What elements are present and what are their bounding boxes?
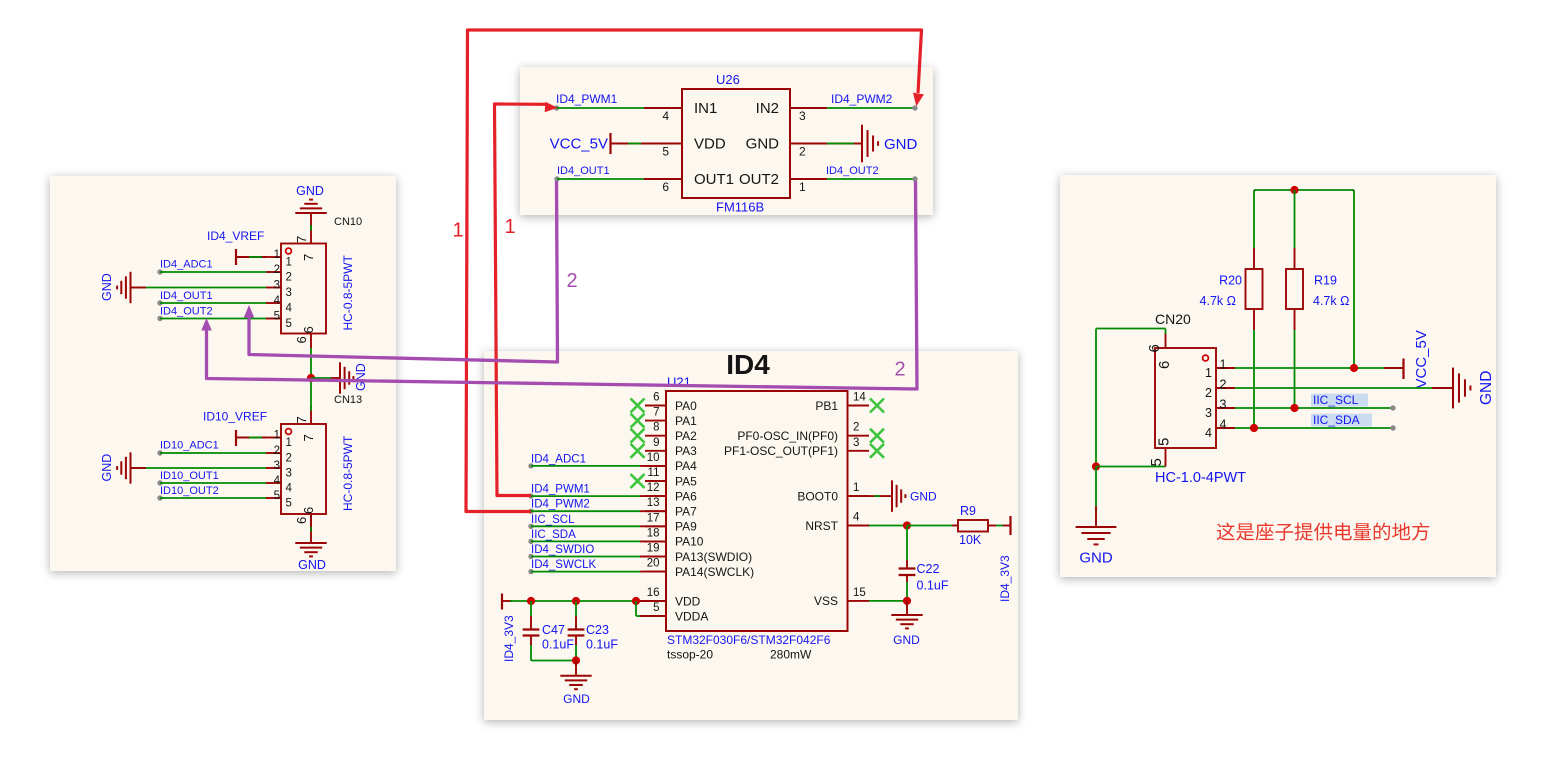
svg-text:PA9: PA9 — [675, 520, 697, 534]
svg-text:6: 6 — [294, 517, 309, 524]
svg-text:15: 15 — [853, 587, 866, 599]
svg-text:ID10_OUT1: ID10_OUT1 — [160, 470, 219, 482]
svg-text:R20: R20 — [1219, 274, 1242, 288]
svg-text:280mW: 280mW — [770, 648, 812, 662]
svg-text:R9: R9 — [960, 504, 976, 518]
svg-text:4: 4 — [662, 109, 669, 123]
svg-text:ID4_OUT2: ID4_OUT2 — [826, 165, 879, 177]
svg-text:4: 4 — [286, 483, 293, 495]
svg-text:5: 5 — [662, 145, 669, 159]
svg-text:5: 5 — [1148, 458, 1165, 466]
svg-text:PF0-OSC_IN(PF0): PF0-OSC_IN(PF0) — [737, 429, 838, 443]
svg-text:9: 9 — [653, 437, 659, 449]
svg-text:ID4_ADC1: ID4_ADC1 — [531, 453, 586, 465]
svg-text:VDD: VDD — [675, 594, 701, 608]
svg-text:STM32F030F6/STM32F042F6: STM32F030F6/STM32F042F6 — [667, 633, 831, 647]
svg-text:HC-0.8-5PWT: HC-0.8-5PWT — [341, 435, 355, 511]
svg-text:GND: GND — [100, 273, 114, 301]
svg-text:19: 19 — [647, 543, 660, 555]
svg-text:ID4_3V3: ID4_3V3 — [998, 555, 1012, 602]
svg-text:4.7k Ω: 4.7k Ω — [1200, 294, 1236, 308]
svg-text:PA1: PA1 — [675, 414, 697, 428]
svg-text:2: 2 — [566, 270, 577, 292]
svg-text:5: 5 — [274, 490, 280, 502]
svg-text:PF1-OSC_OUT(PF1): PF1-OSC_OUT(PF1) — [724, 444, 838, 458]
svg-text:GND: GND — [910, 490, 937, 504]
svg-text:1: 1 — [274, 249, 280, 261]
svg-text:PA6: PA6 — [675, 489, 697, 503]
svg-text:5: 5 — [274, 311, 280, 323]
svg-text:1: 1 — [853, 482, 859, 494]
svg-text:0.1uF: 0.1uF — [586, 638, 618, 652]
svg-text:3: 3 — [274, 460, 280, 472]
svg-text:HC-1.0-4PWT: HC-1.0-4PWT — [1155, 470, 1246, 486]
svg-text:1: 1 — [504, 216, 515, 238]
svg-text:VDD: VDD — [694, 136, 726, 153]
svg-text:GND: GND — [884, 136, 918, 153]
svg-text:10K: 10K — [959, 533, 982, 547]
svg-text:4: 4 — [1205, 426, 1212, 440]
svg-text:IN1: IN1 — [694, 100, 717, 117]
svg-text:PA2: PA2 — [675, 429, 697, 443]
svg-text:2: 2 — [286, 272, 292, 284]
svg-text:5: 5 — [286, 318, 292, 330]
svg-text:GND: GND — [298, 558, 326, 572]
svg-text:OUT2: OUT2 — [739, 171, 779, 188]
svg-text:5: 5 — [286, 498, 292, 510]
svg-text:7: 7 — [301, 254, 316, 261]
svg-text:1: 1 — [286, 437, 292, 449]
svg-text:3: 3 — [799, 109, 806, 123]
svg-text:BOOT0: BOOT0 — [797, 489, 838, 503]
svg-text:PA7: PA7 — [675, 505, 697, 519]
svg-text:6: 6 — [1156, 361, 1173, 369]
svg-text:VDDA: VDDA — [675, 609, 708, 623]
svg-text:ID4_VREF: ID4_VREF — [207, 229, 264, 243]
svg-text:6: 6 — [1146, 344, 1163, 352]
svg-text:6: 6 — [301, 326, 316, 333]
svg-text:ID4_PWM1: ID4_PWM1 — [556, 92, 618, 106]
svg-text:PB1: PB1 — [815, 399, 838, 413]
svg-text:ID4_ADC1: ID4_ADC1 — [160, 259, 213, 271]
svg-text:R19: R19 — [1314, 274, 1337, 288]
svg-text:ID4_SWDIO: ID4_SWDIO — [531, 544, 594, 556]
svg-text:GND: GND — [1079, 550, 1113, 567]
svg-text:4: 4 — [286, 303, 293, 315]
svg-text:ID4_OUT1: ID4_OUT1 — [160, 290, 213, 302]
svg-text:VCC_5V: VCC_5V — [1413, 330, 1430, 388]
svg-text:7: 7 — [294, 236, 309, 243]
svg-text:0.1uF: 0.1uF — [917, 579, 949, 593]
svg-text:7: 7 — [653, 407, 659, 419]
svg-text:5: 5 — [1156, 438, 1173, 446]
svg-text:1: 1 — [274, 430, 280, 442]
svg-text:IIC_SCL: IIC_SCL — [1313, 393, 1359, 407]
svg-text:PA4: PA4 — [675, 459, 697, 473]
svg-text:ID4_PWM1: ID4_PWM1 — [531, 484, 590, 496]
svg-text:3: 3 — [1220, 398, 1227, 412]
svg-text:2: 2 — [853, 422, 859, 434]
svg-text:1: 1 — [286, 257, 292, 269]
svg-text:ID10_ADC1: ID10_ADC1 — [160, 440, 219, 452]
svg-text:VSS: VSS — [814, 594, 838, 608]
svg-text:ID4_OUT2: ID4_OUT2 — [160, 306, 213, 318]
svg-text:1: 1 — [799, 180, 806, 194]
svg-text:17: 17 — [647, 512, 660, 524]
svg-text:GND: GND — [746, 136, 780, 153]
svg-text:1: 1 — [452, 220, 463, 242]
svg-text:HC-0.8-5PWT: HC-0.8-5PWT — [341, 254, 355, 330]
svg-text:13: 13 — [647, 497, 660, 509]
svg-text:PA10: PA10 — [675, 535, 704, 549]
svg-text:PA3: PA3 — [675, 444, 697, 458]
svg-text:CN20: CN20 — [1155, 311, 1191, 327]
svg-text:4: 4 — [853, 512, 860, 524]
svg-text:IIC_SDA: IIC_SDA — [531, 529, 576, 541]
svg-text:CN10: CN10 — [334, 216, 362, 228]
svg-text:3: 3 — [286, 468, 292, 480]
svg-text:4.7k Ω: 4.7k Ω — [1313, 294, 1349, 308]
svg-text:OUT1: OUT1 — [694, 171, 734, 188]
svg-text:ID10_VREF: ID10_VREF — [203, 410, 267, 424]
svg-text:GND: GND — [1478, 371, 1495, 405]
svg-text:12: 12 — [647, 482, 660, 494]
svg-text:7: 7 — [301, 434, 316, 441]
svg-text:GND: GND — [100, 454, 114, 482]
svg-text:IIC_SCL: IIC_SCL — [531, 514, 575, 526]
svg-text:2: 2 — [799, 145, 806, 159]
svg-text:GND: GND — [354, 363, 368, 391]
svg-text:4: 4 — [1220, 418, 1227, 432]
svg-text:VCC_5V: VCC_5V — [550, 136, 608, 153]
svg-text:6: 6 — [301, 507, 316, 514]
svg-text:20: 20 — [647, 558, 660, 570]
svg-text:3: 3 — [853, 437, 859, 449]
svg-text:1: 1 — [1220, 358, 1227, 372]
svg-text:6: 6 — [662, 180, 669, 194]
svg-text:5: 5 — [653, 602, 659, 614]
svg-text:14: 14 — [853, 392, 866, 404]
svg-text:ID10_OUT2: ID10_OUT2 — [160, 485, 219, 497]
svg-text:0.1uF: 0.1uF — [542, 638, 574, 652]
svg-text:PA5: PA5 — [675, 474, 697, 488]
svg-text:2: 2 — [274, 445, 280, 457]
svg-text:2: 2 — [894, 359, 905, 381]
svg-text:FM116B: FM116B — [716, 200, 764, 215]
svg-text:C47: C47 — [542, 623, 565, 637]
svg-text:3: 3 — [1205, 406, 1212, 420]
svg-text:2: 2 — [286, 453, 292, 465]
svg-text:C23: C23 — [586, 623, 609, 637]
svg-text:4: 4 — [274, 295, 281, 307]
svg-text:GND: GND — [296, 184, 324, 198]
svg-text:U26: U26 — [716, 72, 740, 87]
svg-text:IIC_SDA: IIC_SDA — [1313, 413, 1360, 427]
svg-text:6: 6 — [294, 336, 309, 343]
svg-text:7: 7 — [294, 416, 309, 423]
svg-text:IN2: IN2 — [756, 100, 779, 117]
svg-text:PA14(SWCLK): PA14(SWCLK) — [675, 565, 754, 579]
svg-text:ID4_PWM2: ID4_PWM2 — [831, 92, 893, 106]
svg-text:2: 2 — [1220, 378, 1227, 392]
svg-text:8: 8 — [653, 422, 659, 434]
svg-text:2: 2 — [274, 264, 280, 276]
svg-text:ID4_3V3: ID4_3V3 — [502, 615, 516, 662]
svg-text:ID4_OUT1: ID4_OUT1 — [557, 165, 610, 177]
svg-text:11: 11 — [648, 467, 660, 479]
svg-text:tssop-20: tssop-20 — [667, 648, 713, 662]
svg-text:2: 2 — [1205, 386, 1212, 400]
svg-text:PA0: PA0 — [675, 399, 697, 413]
svg-text:6: 6 — [653, 392, 659, 404]
svg-text:3: 3 — [274, 280, 280, 292]
svg-text:4: 4 — [274, 475, 281, 487]
svg-text:16: 16 — [647, 587, 660, 599]
svg-text:3: 3 — [286, 287, 292, 299]
svg-text:GND: GND — [893, 633, 920, 647]
svg-text:ID4_PWM2: ID4_PWM2 — [531, 499, 590, 511]
svg-text:ID4_SWCLK: ID4_SWCLK — [531, 559, 597, 571]
svg-text:1: 1 — [1205, 366, 1212, 380]
svg-text:GND: GND — [563, 692, 590, 706]
svg-text:C22: C22 — [917, 562, 940, 576]
svg-text:10: 10 — [647, 452, 660, 464]
svg-text:ID4: ID4 — [726, 349, 770, 380]
svg-text:NRST: NRST — [805, 519, 838, 533]
svg-text:PA13(SWDIO): PA13(SWDIO) — [675, 550, 752, 564]
svg-text:CN13: CN13 — [334, 394, 362, 406]
svg-text:18: 18 — [647, 527, 660, 539]
